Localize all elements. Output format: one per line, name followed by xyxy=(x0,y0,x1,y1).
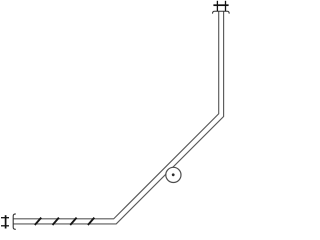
grab-bar tube lower/right contour line xyxy=(13,11,223,224)
swivel ring center pin xyxy=(172,173,175,176)
top flange bolt stem left xyxy=(216,1,218,11)
top flange mounting bar xyxy=(213,4,228,6)
grip hatch slash 4 xyxy=(88,218,94,225)
grab-bar tube upper/left contour line xyxy=(13,11,219,219)
left flange bolt stem bottom xyxy=(1,225,9,227)
left flange mounting bar xyxy=(5,215,7,228)
wire xyxy=(0,0,230,230)
top flange bolt stem right xyxy=(225,1,227,11)
grip hatch slash 2 xyxy=(53,218,59,225)
grip hatch slash 1 xyxy=(35,218,41,225)
left flange bolt stem top xyxy=(1,217,9,219)
swivel ring on diagonal section xyxy=(166,167,181,182)
grip hatch slash 3 xyxy=(70,218,76,225)
left wall flange plate xyxy=(13,214,16,229)
top wall flange plate xyxy=(213,11,230,13)
